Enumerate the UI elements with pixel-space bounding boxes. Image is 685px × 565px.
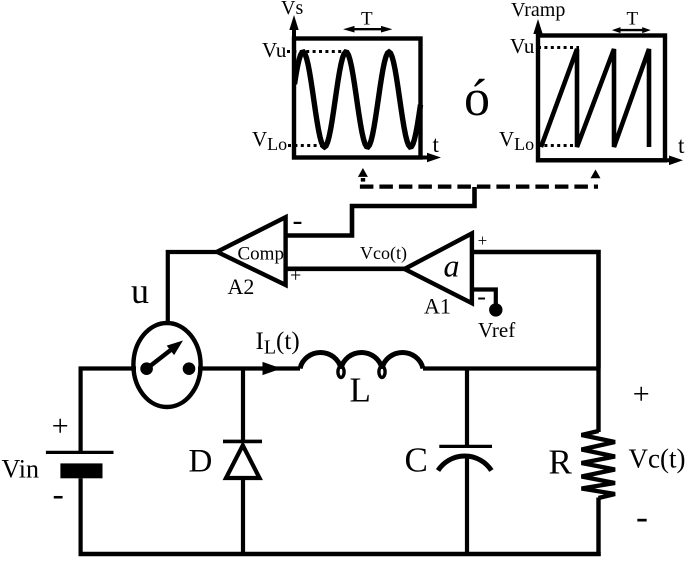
wire switch to inductor	[198, 366, 300, 370]
svg-text:-: -	[293, 204, 303, 237]
op-amp A2 comparator	[217, 217, 286, 285]
svg-text:+: +	[52, 410, 69, 443]
dotted Vu level (Vs plot)	[287, 50, 344, 53]
dotted Vu level (Vramp plot)	[538, 46, 579, 49]
dashed up-arrow to Vs plot	[358, 168, 368, 182]
svg-text:Vu: Vu	[510, 34, 535, 58]
svg-text:t: t	[678, 133, 685, 158]
svg-text:L: L	[350, 371, 371, 410]
op-amp A1	[405, 233, 472, 303]
diode D	[223, 369, 262, 557]
svg-text:C: C	[405, 441, 428, 480]
resistor R	[582, 369, 616, 557]
plot Vramp box	[538, 36, 665, 161]
svg-text:IL(t): IL(t)	[256, 328, 300, 359]
dotted VLo level (Vramp plot)	[538, 144, 573, 147]
svg-text:-: -	[477, 282, 486, 311]
svg-text:Vref: Vref	[478, 318, 515, 342]
svg-text:A1: A1	[424, 294, 451, 319]
svg-text:Vu: Vu	[262, 38, 287, 62]
plot Vs x-axis	[294, 153, 441, 163]
T double arrow (Vramp plot)	[612, 27, 651, 33]
node Vref terminal dot	[489, 303, 502, 316]
wire inductor to output node	[423, 366, 601, 370]
svg-text:R: R	[549, 443, 573, 482]
svg-text:-: -	[53, 476, 64, 513]
svg-text:Vc(t): Vc(t)	[629, 444, 685, 474]
T double arrow (Vs plot)	[343, 26, 392, 33]
wire ground bottom	[79, 552, 601, 557]
plot Vramp x-axis	[538, 156, 683, 166]
svg-text:a: a	[444, 248, 460, 284]
svg-text:T: T	[627, 9, 639, 30]
inductor L	[300, 352, 423, 377]
svg-text:T: T	[361, 9, 373, 30]
svg-text:u: u	[131, 271, 149, 311]
battery Vin	[46, 369, 114, 557]
wire battery to switch	[79, 366, 137, 370]
wire A1 plus input to output node	[471, 252, 599, 369]
plot Vramp y-axis	[533, 19, 542, 160]
svg-text:Vin: Vin	[2, 455, 39, 484]
dashed up-arrow to Vramp plot	[591, 170, 601, 179]
svg-text:Vramp: Vramp	[511, 0, 565, 21]
wire A1 minus input	[471, 290, 496, 306]
svg-text:Vs: Vs	[281, 0, 303, 19]
dotted VLo level (Vs plot)	[288, 144, 324, 147]
svg-text:ó: ó	[464, 70, 490, 127]
wire A2 output to switch	[168, 252, 218, 324]
svg-text:Comp: Comp	[238, 244, 284, 265]
capacitor C	[438, 369, 492, 557]
svg-text:+: +	[478, 231, 488, 250]
svg-text:-: -	[636, 496, 648, 536]
wire comparator minus input step	[285, 187, 475, 236]
plot Vs y-axis	[289, 15, 298, 158]
plot Vs box	[294, 39, 421, 158]
svg-text:D: D	[189, 443, 213, 479]
dashed signal line horizontal	[360, 184, 598, 188]
svg-text:t: t	[433, 132, 440, 157]
sawtooth waveform (Vramp plot)	[541, 49, 649, 147]
switch u	[133, 323, 200, 407]
svg-text:Vco(t): Vco(t)	[360, 243, 407, 264]
sine waveform (Vs plot)	[295, 52, 421, 147]
wire A2 plus input	[285, 266, 406, 271]
svg-text:A2: A2	[228, 274, 255, 299]
svg-text:+: +	[633, 377, 650, 410]
current arrow IL(t)	[263, 362, 282, 375]
